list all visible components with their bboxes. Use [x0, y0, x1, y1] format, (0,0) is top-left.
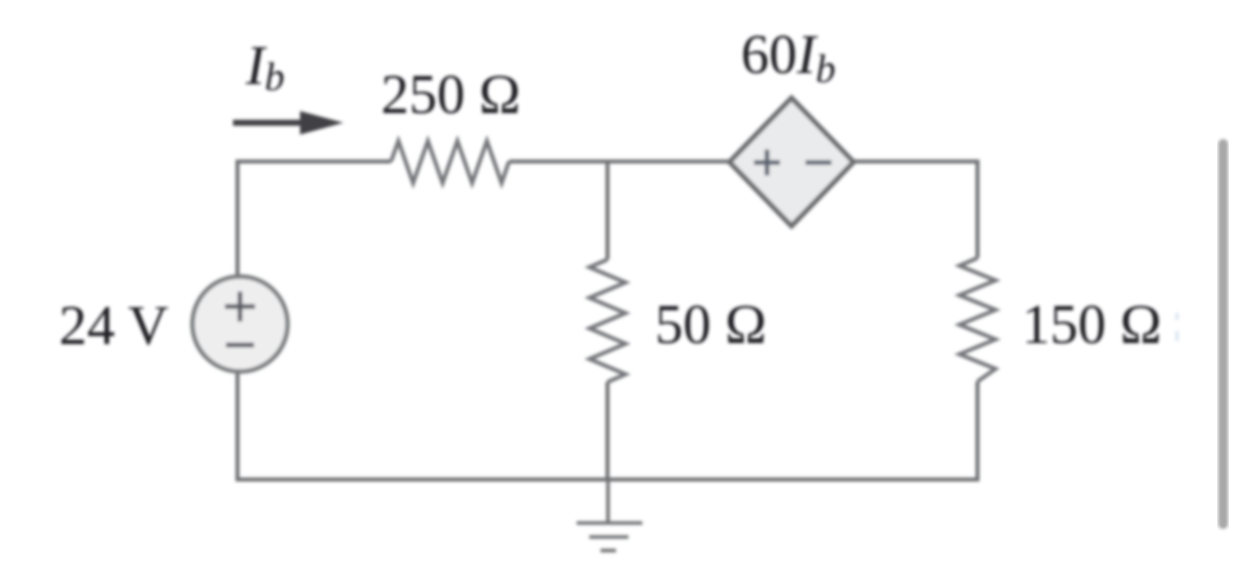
wire right vertical upper segment with top-right corner: [976, 160, 980, 259]
dependent source U1 diamond 60Ib: [730, 98, 854, 226]
wire top-left segment with corner to left vertical: [238, 162, 392, 278]
svg-text:Ib: Ib: [245, 35, 285, 99]
voltage source V1 plus sign: [225, 292, 255, 322]
dependent source U1 plus sign: [754, 150, 780, 176]
ground bar 1: [577, 521, 643, 525]
wire top-middle segment: [509, 160, 978, 164]
ground bar 2: [589, 535, 628, 539]
svg-text:24 V: 24 V: [59, 295, 168, 357]
dependent source U1 minus sign: [806, 160, 832, 165]
wire left vertical lower segment: [236, 372, 240, 480]
faint artifact mark right of 150 ohm: [1176, 313, 1179, 341]
resistor R2 50 ohm (vertical zigzag): [590, 260, 626, 383]
wire middle vertical upper segment: [606, 162, 610, 260]
current arrow Ib shaft: [233, 120, 305, 126]
svg-text:150 Ω: 150 Ω: [1022, 294, 1162, 356]
ground stem: [606, 477, 610, 523]
scrollbar thumb: [1218, 139, 1228, 529]
ground bar 3: [601, 549, 617, 553]
wire right vertical lower segment: [976, 382, 980, 480]
svg-text:50 Ω: 50 Ω: [655, 294, 767, 356]
voltage source V1 24V circle: [193, 277, 288, 372]
svg-text:250 Ω: 250 Ω: [381, 64, 521, 126]
voltage source V1 minus sign: [226, 343, 254, 348]
current arrow Ib head: [300, 111, 344, 135]
wire middle vertical lower segment: [606, 382, 610, 480]
svg-text:60Ib: 60Ib: [741, 24, 836, 91]
wire bottom horizontal segment: [236, 478, 980, 482]
resistor R1 250 ohm (horizontal zigzag): [391, 141, 509, 183]
resistor R3 150 ohm (vertical zigzag): [960, 258, 996, 382]
